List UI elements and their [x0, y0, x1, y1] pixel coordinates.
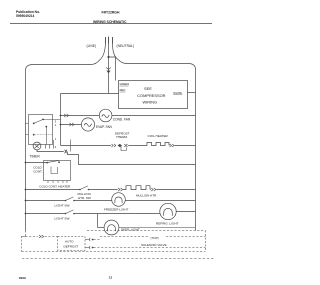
defrost thermostat	[118, 144, 122, 147]
timer pin stubs	[46, 140, 54, 149]
svg-text:TIMER: TIMER	[30, 154, 41, 158]
wire into defr lamp	[98, 227, 105, 229]
svg-text:(LINE): (LINE)	[87, 44, 97, 48]
svg-text:12: 12	[109, 276, 113, 280]
node junction on ground wire	[107, 56, 109, 58]
label MULLION HTR. SW.	[78, 192, 92, 200]
svg-text:HTR. SW.: HTR. SW.	[78, 196, 91, 200]
timer pin labels	[55, 120, 57, 149]
svg-text:SEE: SEE	[144, 86, 152, 91]
svg-text:2: 2	[55, 145, 57, 149]
auto defrost output wire 2	[85, 247, 89, 249]
svg-text:AUTO: AUTO	[65, 240, 74, 244]
lamp defr light	[104, 220, 119, 235]
light switch 2	[65, 213, 67, 215]
mullion heater element	[123, 186, 150, 190]
svg-text:COND. FAN: COND. FAN	[113, 118, 131, 122]
timer box	[29, 115, 53, 145]
wire compressor feed row	[61, 93, 119, 95]
connector on auto defrost feed	[39, 235, 44, 238]
connector on evap fan row	[69, 123, 74, 126]
wire coil heater to right rail	[175, 145, 196, 147]
wire to mullion heater	[89, 189, 118, 191]
svg-text:DEFR. LIGHT: DEFR. LIGHT	[121, 228, 140, 232]
label COLD CONT.	[33, 166, 42, 174]
left rail	[25, 71, 27, 231]
svg-text:THERM.: THERM.	[116, 135, 128, 139]
wire mullion heater to rail	[149, 189, 152, 191]
wire freezer light row	[26, 200, 66, 202]
connector on defrost row	[111, 144, 115, 147]
cold control sensing element	[51, 167, 58, 174]
svg-text:LIGHT SW.: LIGHT SW.	[55, 204, 71, 208]
connector before right rail	[151, 188, 156, 191]
defrost coil heater element	[147, 143, 169, 146]
header rule	[10, 23, 212, 25]
cold control contact nodes	[46, 162, 48, 164]
svg-text:GREEN: GREEN	[120, 82, 130, 86]
wire vertical feeder	[60, 94, 62, 146]
mullion heater switch	[79, 189, 81, 191]
light switch 1	[65, 200, 67, 202]
auto defrost output wire 1	[85, 239, 89, 241]
node feeder junction B	[60, 124, 62, 126]
motor cond fan	[99, 109, 112, 122]
connector on cond fan row	[64, 114, 69, 117]
svg-text:DEFROST: DEFROST	[64, 244, 79, 248]
svg-text:(NEUTRAL): (NEUTRAL)	[117, 44, 135, 48]
svg-text:MULLION HTR.: MULLION HTR.	[136, 194, 157, 198]
lamp refrig light	[160, 203, 176, 219]
cold control box	[44, 161, 71, 181]
wire white to right rail	[188, 92, 196, 94]
wire refrig lamp to right rail	[176, 211, 195, 213]
connector on mullion row	[118, 188, 123, 191]
dashed right border	[205, 231, 207, 252]
svg-text:1: 1	[55, 137, 57, 141]
wire rail to timer	[26, 124, 29, 135]
wire evap fan row	[61, 124, 82, 126]
wire ground center drop	[108, 44, 110, 94]
cold control pin stubs	[48, 181, 67, 184]
label DEFROST THERM.	[115, 132, 130, 140]
motor evap fan	[81, 118, 94, 131]
wire switch to refrig lamp	[74, 213, 160, 215]
lamp freezer light	[112, 193, 126, 207]
label AUTO DEFROST	[64, 240, 79, 249]
wire mullion row end	[156, 189, 195, 191]
wire cond fan row	[61, 115, 100, 117]
svg-text:COIL HEATER: COIL HEATER	[148, 134, 169, 138]
cold control switch blade	[47, 160, 58, 162]
wire defr lamp right	[119, 227, 196, 229]
connector after coil heater	[170, 144, 175, 147]
connector on timer motor wire	[64, 150, 67, 153]
auto defrost box	[58, 237, 86, 251]
power plug P1 prongs	[106, 37, 113, 44]
right rail	[195, 70, 197, 231]
svg-text:FREEZER LIGHT: FREEZER LIGHT	[104, 207, 129, 211]
svg-text:EVAP. FAN: EVAP. FAN	[96, 125, 113, 129]
svg-text:WHITE: WHITE	[173, 91, 182, 95]
dashed bottom border	[22, 251, 206, 253]
wire refrig light row	[26, 213, 66, 215]
compressor box U1	[119, 81, 188, 109]
timer contact nodes	[33, 123, 35, 125]
wire switch to freezer lamp	[74, 200, 112, 202]
footer dashed separator	[22, 258, 215, 260]
svg-text:1: 1	[55, 123, 57, 127]
svg-text:SOLENOID VALVE: SOLENOID VALVE	[141, 243, 167, 247]
wire timer motor neutral run continues	[68, 152, 196, 165]
timer dotted link	[34, 134, 53, 136]
svg-text:RED: RED	[120, 88, 126, 92]
wire stub above motor connector	[70, 140, 72, 152]
svg-text:FRT22RGH: FRT22RGH	[102, 11, 120, 15]
label SEE COMPRESSOR WIRING	[137, 86, 165, 104]
svg-text:(TOP): (TOP)	[151, 236, 159, 240]
wire cond fan row right	[112, 115, 196, 117]
svg-text:COMPRESSOR: COMPRESSOR	[137, 93, 165, 98]
dashed left drop from rail	[22, 231, 26, 252]
svg-text:CONT.: CONT.	[33, 169, 42, 173]
svg-text:0999: 0999	[19, 276, 26, 280]
dashed auto defrost section top border	[87, 230, 206, 232]
wire defrost heater row	[61, 145, 111, 147]
connector output 2	[89, 246, 92, 249]
wire rail to cold control	[26, 162, 48, 164]
wire branch to compressor green	[109, 57, 116, 81]
timer internal pin line	[46, 127, 48, 145]
wire mullion heater row	[26, 189, 81, 191]
timer motor M	[33, 142, 41, 150]
wire to coil heater	[128, 145, 147, 147]
connector on center drop wire	[106, 68, 110, 70]
node feeder junction A	[60, 115, 62, 117]
svg-text:3: 3	[55, 120, 57, 124]
connector output 1	[89, 238, 92, 241]
wire timer motor to neutral run	[37, 150, 64, 152]
defrost thermostat bracket	[121, 146, 126, 151]
svg-text:COLD CONT. HEATER: COLD CONT. HEATER	[39, 185, 71, 189]
wire neutral side from plug to right rail	[113, 44, 196, 70]
wire drop to defr light	[97, 214, 99, 228]
publication number text	[16, 10, 40, 18]
wire line side from plug to left rail	[26, 44, 106, 71]
svg-text:LIGHT SW.: LIGHT SW.	[55, 217, 71, 221]
wire freezer lamp to right rail	[125, 200, 195, 202]
svg-text:WIRING: WIRING	[143, 99, 157, 104]
svg-text:5995049214: 5995049214	[16, 14, 35, 18]
dashed wire into auto defrost	[22, 236, 58, 238]
timer switch blade	[34, 119, 43, 123]
svg-text:REFRIG. LIGHT: REFRIG. LIGHT	[156, 221, 179, 225]
wire timer contact to feeder	[43, 118, 60, 120]
